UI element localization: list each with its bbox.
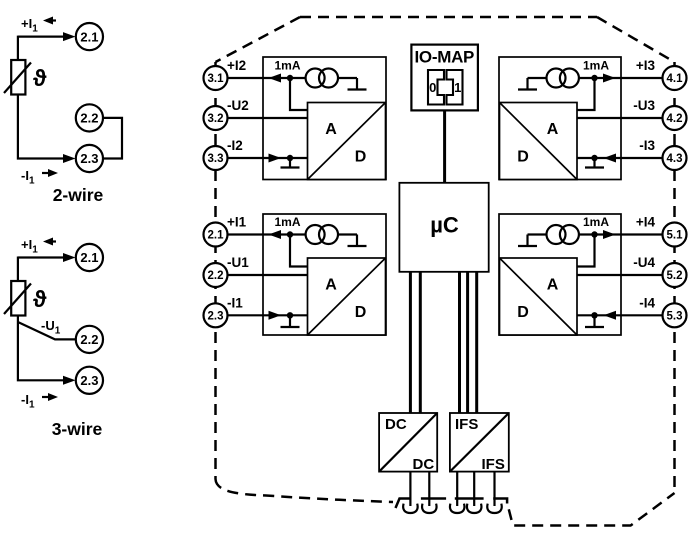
svg-text:D: D — [517, 149, 529, 166]
connector pin DC-2 socket — [422, 504, 436, 513]
junction on -I4 wire CH4 — [591, 312, 597, 318]
arrow left beside +I1 (2-wire) — [46, 19, 56, 21]
svg-text:IFS: IFS — [482, 456, 505, 473]
ground symbol bottom CH1 — [281, 315, 300, 327]
terminal 3.3 — [204, 146, 228, 170]
wire -I3 row CH3 — [577, 157, 663, 159]
svg-text:0: 0 — [429, 80, 436, 95]
wire -U1 row CH1 — [228, 274, 308, 276]
channel block CH3 outer box — [499, 57, 621, 180]
current source 1mA CH3 — [547, 69, 566, 88]
svg-text:A: A — [325, 276, 337, 293]
svg-text:-I2: -I2 — [227, 138, 243, 153]
junction on +I3 wire CH3 — [591, 75, 597, 81]
svg-text:1mA: 1mA — [583, 59, 609, 73]
svg-text:ϑ: ϑ — [33, 286, 47, 312]
svg-text:+I3: +I3 — [636, 58, 656, 73]
wire -I2 row CH2 — [228, 157, 308, 159]
bus uC to IFS line 3 — [475, 272, 478, 413]
bus uC to IFS line 2 — [466, 272, 469, 413]
svg-text:-I4: -I4 — [639, 295, 655, 310]
wire -I4 row CH4 — [577, 314, 663, 316]
RTD resistor (3-wire) — [11, 281, 25, 316]
svg-text:DC: DC — [413, 456, 435, 473]
svg-text:2.2: 2.2 — [208, 270, 224, 282]
module dashed outline top edge — [300, 16, 597, 19]
terminal 2.2 (3-wire) — [76, 326, 103, 353]
svg-text:1mA: 1mA — [275, 215, 301, 229]
arrow right beside -I1 (2-wire) — [42, 172, 52, 174]
svg-text:A: A — [325, 121, 337, 138]
wire current source to ground CH1 — [338, 233, 357, 235]
svg-text:1mA: 1mA — [583, 215, 609, 229]
svg-text:2.1: 2.1 — [80, 29, 98, 44]
terminal 2.3 — [204, 303, 228, 327]
microcontroller uC — [399, 183, 488, 272]
channel block CH1 outer box — [263, 214, 386, 335]
connector pin IFS-1 stem — [456, 472, 458, 506]
svg-text:3.3: 3.3 — [208, 153, 224, 165]
svg-text:IO-MAP: IO-MAP — [415, 47, 475, 66]
svg-text:-U3: -U3 — [633, 98, 655, 113]
wire -U2 row CH2 — [228, 117, 308, 119]
svg-text:ϑ: ϑ — [33, 65, 47, 91]
IO-MAP block — [411, 45, 478, 111]
svg-text:D: D — [355, 304, 367, 321]
terminal 3.1 — [204, 66, 228, 90]
ground symbol top CH4 — [518, 235, 537, 247]
wire junction down into A/D CH2 — [290, 78, 308, 110]
wire loop 2.2 to 2.3 (2-wire) — [101, 118, 122, 159]
svg-text:4.2: 4.2 — [667, 113, 683, 125]
connector pin IFS-3 socket — [487, 504, 501, 513]
junction on +I4 wire CH4 — [591, 231, 597, 237]
svg-text:3-wire: 3-wire — [52, 419, 103, 439]
A/D converter CH1 — [308, 258, 386, 335]
svg-text:3.1: 3.1 — [208, 73, 225, 85]
svg-text:2.2: 2.2 — [80, 111, 98, 126]
svg-text:D: D — [355, 149, 367, 166]
channel block CH2 outer box — [263, 57, 386, 180]
terminal 4.2 — [663, 106, 687, 130]
wire IO-MAP to microcontroller — [443, 110, 446, 182]
module outline solid bracket at connectors — [396, 499, 412, 509]
arrow right beside -I1 (3-wire) — [42, 396, 52, 398]
wire left vertical upper (2-wire) — [17, 36, 19, 60]
svg-text:1: 1 — [454, 80, 461, 95]
svg-text:2.3: 2.3 — [80, 373, 98, 388]
terminal 4.1 — [663, 66, 687, 90]
terminal 2.3 (3-wire) — [76, 367, 103, 394]
ground symbol bottom CH3 — [585, 158, 604, 168]
svg-text:A: A — [547, 121, 559, 138]
svg-text:A: A — [547, 276, 559, 293]
svg-text:2-wire: 2-wire — [53, 185, 104, 205]
IFS interface block — [450, 413, 509, 473]
terminal 5.1 — [663, 223, 687, 247]
terminal 2.1 — [204, 223, 228, 247]
current source 1mA CH4 — [547, 225, 566, 244]
svg-text:2.1: 2.1 — [80, 250, 98, 265]
wire tap to terminal 2.2 (3-wire) — [18, 322, 76, 339]
svg-text:4.1: 4.1 — [667, 73, 684, 85]
3-wire sensor circuit — [4, 237, 103, 439]
wire left vertical lower (2-wire) — [18, 95, 66, 159]
connector pin IFS-1 socket — [450, 504, 464, 513]
module dashed outline left edge — [214, 62, 217, 479]
wire left vertical lower (3-wire) — [18, 316, 66, 381]
module dashed outline right edge — [673, 62, 676, 493]
svg-text:-U4: -U4 — [633, 255, 655, 270]
ground symbol top CH2 — [348, 78, 367, 90]
terminal 4.3 — [663, 146, 687, 170]
bus uC to IFS line 1 — [458, 272, 461, 413]
svg-text:5.1: 5.1 — [667, 230, 684, 242]
svg-text:-I3: -I3 — [639, 138, 655, 153]
A/D converter CH4 — [500, 258, 578, 335]
wire junction down into A/D CH3 — [577, 78, 595, 110]
svg-text:5.3: 5.3 — [667, 310, 683, 322]
wire +I1 to terminal 2.1 (3-wire) — [18, 256, 66, 258]
svg-text:2.3: 2.3 — [80, 151, 98, 166]
svg-text:+I4: +I4 — [636, 215, 656, 230]
channel block CH4 outer box — [499, 214, 621, 335]
svg-text:+I2: +I2 — [227, 58, 246, 73]
svg-text:2.3: 2.3 — [208, 310, 224, 322]
wire +I2 row CH2 — [228, 77, 306, 79]
ground symbol bottom CH2 — [281, 158, 300, 168]
wire ground to current source CH3 — [528, 77, 547, 79]
svg-text:-U2: -U2 — [227, 98, 249, 113]
2-wire sensor circuit — [4, 16, 122, 205]
svg-text:-I1: -I1 — [227, 295, 243, 310]
connector pin DC-2 stem — [428, 472, 430, 506]
terminal 2.2 — [204, 263, 228, 287]
arrow left beside +I1 (3-wire) — [46, 240, 56, 242]
terminal 2.2 (2-wire) — [76, 104, 103, 131]
wire -I1 row CH1 — [228, 314, 308, 316]
svg-text:+I1: +I1 — [227, 215, 247, 230]
RTD resistor (2-wire) — [11, 60, 25, 95]
wire ground to current source CH4 — [528, 233, 547, 235]
svg-text:D: D — [517, 304, 529, 321]
junction on -I2 wire CH2 — [287, 155, 293, 161]
junction on -I3 wire CH3 — [591, 155, 597, 161]
terminal 5.2 — [663, 263, 687, 287]
thumbwheel switch 0 — [428, 70, 444, 105]
wire -U4 row CH4 — [577, 274, 663, 276]
svg-text:µC: µC — [430, 213, 459, 238]
ground symbol top CH3 — [518, 78, 537, 90]
terminal 3.2 — [204, 106, 228, 130]
ground symbol bottom CH4 — [585, 315, 604, 327]
terminal 2.1 (2-wire) — [76, 23, 103, 50]
svg-text:DC: DC — [385, 416, 407, 433]
junction on -I1 wire CH1 — [287, 312, 293, 318]
thumbwheel switch 1 — [447, 70, 463, 105]
junction on +I2 wire CH2 — [287, 75, 293, 81]
wire left vertical upper (3-wire) — [17, 257, 19, 282]
A/D converter CH3 — [500, 103, 578, 180]
svg-text:2.1: 2.1 — [208, 230, 225, 242]
svg-text:1mA: 1mA — [275, 59, 301, 73]
module dashed outline bottom-left curve — [216, 479, 394, 502]
svg-text:2.2: 2.2 — [80, 332, 98, 347]
svg-text:5.2: 5.2 — [667, 270, 683, 282]
terminal 2.1 (3-wire) — [76, 244, 103, 271]
wire +I3 row CH3 — [579, 77, 663, 79]
connector pin IFS-3 stem — [493, 472, 495, 506]
wire +I4 row CH4 — [579, 233, 663, 235]
svg-text:3.2: 3.2 — [208, 113, 224, 125]
svg-text:IFS: IFS — [455, 416, 478, 433]
connector pin IFS-2 stem — [473, 472, 475, 506]
ground symbol top CH1 — [348, 235, 367, 247]
module dashed outline top-left chamfer — [216, 17, 301, 62]
connector pin IFS-2 socket — [467, 504, 481, 513]
wire -U3 row CH3 — [577, 117, 663, 119]
wire current source to ground CH2 — [338, 77, 357, 79]
svg-text:4.3: 4.3 — [667, 153, 683, 165]
module dashed outline top-right chamfer — [597, 17, 675, 62]
A/D converter CH2 — [308, 103, 386, 180]
wire +I1 to terminal 2.1 (2-wire) — [18, 35, 66, 37]
wire junction down into A/D CH4 — [577, 235, 595, 267]
bus uC to DC/DC line 1 — [409, 272, 412, 413]
terminal 5.3 — [663, 303, 687, 327]
terminal 2.3 (2-wire) — [76, 145, 103, 172]
svg-text:-U1: -U1 — [227, 255, 249, 270]
bus uC to DC/DC line 2 — [419, 272, 422, 413]
current source 1mA CH2 — [306, 69, 325, 88]
junction on +I1 wire CH1 — [287, 231, 293, 237]
connector pin DC-1 stem — [409, 472, 411, 506]
module dashed outline bottom-right curve — [507, 493, 674, 526]
DC/DC converter U-DC — [379, 413, 437, 473]
wire +I1 row CH1 — [228, 233, 306, 235]
wire junction down into A/D CH1 — [290, 235, 308, 267]
current source 1mA CH1 — [306, 225, 325, 244]
connector pin DC-1 socket — [403, 504, 417, 513]
